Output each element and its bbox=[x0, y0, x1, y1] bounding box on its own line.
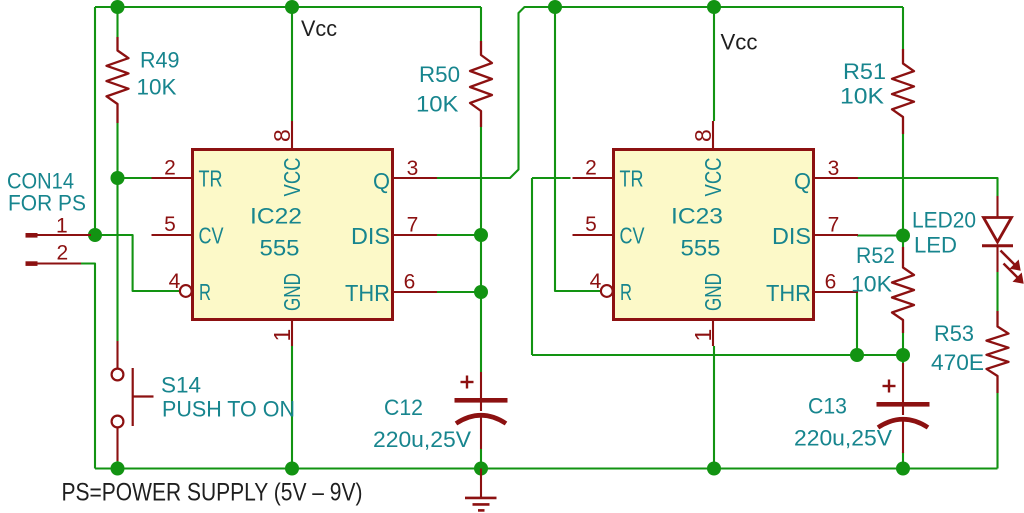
label R50 value 10K bbox=[416, 92, 459, 117]
wire R51 column top bbox=[902, 7, 904, 49]
label LED20 bbox=[912, 208, 976, 233]
wire IC22 THR to junction bbox=[437, 291, 481, 293]
svg-text:10K: 10K bbox=[416, 92, 459, 117]
wire THR net horizontal bbox=[532, 354, 903, 356]
junction rail C13 bbox=[896, 462, 910, 476]
svg-text:LED20: LED20 bbox=[912, 208, 976, 233]
label R52 value 10K bbox=[851, 272, 892, 297]
svg-text:Vcc: Vcc bbox=[721, 30, 758, 55]
svg-text:1: 1 bbox=[56, 215, 68, 238]
pin 6 THR IC22 bbox=[393, 271, 438, 294]
wire R49 column to TR junction and S14 bbox=[116, 123, 118, 341]
pin 7 DIS IC23 bbox=[814, 214, 859, 237]
wire C12 bottom lead bbox=[480, 449, 482, 469]
svg-text:GND: GND bbox=[700, 273, 726, 311]
pin 2 TR IC23 bbox=[573, 157, 614, 180]
svg-text:GND: GND bbox=[279, 273, 305, 311]
svg-text:6: 6 bbox=[404, 271, 416, 294]
pin name VCC IC22 rotated bbox=[279, 158, 305, 197]
pin name GND IC23 rotated bbox=[700, 273, 726, 311]
svg-text:C13: C13 bbox=[808, 394, 847, 419]
pin 4 R IC22 inverted bbox=[169, 270, 192, 297]
wire IC23 DIS to R52 junction bbox=[857, 234, 903, 236]
svg-text:VCC: VCC bbox=[700, 158, 726, 197]
ground bbox=[465, 469, 497, 511]
pin 5 CV IC22 bbox=[152, 213, 193, 236]
wire R53 bottom to ground rail bbox=[996, 393, 998, 469]
wire R52 bottom to THR net bbox=[902, 333, 904, 355]
svg-text:Vcc: Vcc bbox=[301, 16, 337, 41]
svg-text:4: 4 bbox=[169, 270, 181, 293]
svg-text:FOR PS: FOR PS bbox=[8, 191, 86, 216]
pin 8 VCC IC22 bbox=[269, 121, 295, 150]
svg-text:R51: R51 bbox=[843, 59, 886, 84]
svg-text:7: 7 bbox=[407, 214, 419, 237]
net label Vcc right bbox=[721, 30, 758, 55]
label R53 bbox=[934, 321, 974, 346]
svg-text:IC22: IC22 bbox=[250, 204, 302, 229]
wire R51 bottom to DIS junction bbox=[902, 134, 904, 236]
junction top rail IC22 VCC bbox=[285, 0, 299, 14]
wire TR row IC22 bbox=[118, 177, 152, 179]
capacitor C12 bbox=[455, 372, 508, 449]
junction DIS R51 R52 bbox=[896, 229, 910, 243]
svg-text:470E: 470E bbox=[931, 350, 984, 375]
label C12 bbox=[384, 395, 423, 420]
junction rail2 IC23 VCC bbox=[707, 0, 721, 14]
wire IC23 TR down to THR net bbox=[531, 178, 533, 355]
wire CON14 pin1 to IC22 reset bbox=[95, 235, 180, 291]
svg-text:10K: 10K bbox=[851, 272, 892, 297]
svg-text:3: 3 bbox=[828, 157, 840, 180]
svg-text:TR: TR bbox=[620, 166, 644, 192]
svg-text:1: 1 bbox=[269, 329, 295, 342]
svg-text:5: 5 bbox=[164, 213, 176, 236]
svg-text:PUSH TO ON: PUSH TO ON bbox=[162, 397, 295, 422]
svg-text:CV: CV bbox=[199, 223, 225, 249]
svg-text:1: 1 bbox=[690, 329, 716, 342]
svg-text:2: 2 bbox=[57, 242, 69, 265]
wire R52 top stub bbox=[902, 236, 904, 247]
pin name DIS IC23 bbox=[772, 223, 811, 249]
capacitor C13 bbox=[877, 363, 930, 453]
pin name THR IC23 bbox=[766, 280, 811, 306]
connector CON14 pin 2 bbox=[26, 242, 82, 266]
pin name TR IC22 bbox=[199, 166, 223, 192]
resistor R53 bbox=[987, 311, 1009, 393]
junction top rail R49 bbox=[111, 0, 125, 14]
IC IC22 555 timer body bbox=[193, 150, 393, 320]
svg-text:8: 8 bbox=[690, 129, 716, 142]
junction rail2 IC23 reset bbox=[548, 0, 562, 14]
svg-text:LED: LED bbox=[914, 233, 957, 258]
pin name DIS IC22 bbox=[351, 223, 390, 249]
svg-text:2: 2 bbox=[585, 157, 597, 180]
pin 7 DIS IC22 bbox=[393, 214, 438, 237]
junction CON14 pin1 bbox=[88, 228, 102, 242]
svg-text:555: 555 bbox=[260, 236, 300, 261]
svg-text:THR: THR bbox=[345, 280, 390, 306]
svg-text:8: 8 bbox=[269, 129, 295, 142]
wire S14 bottom to ground rail bbox=[116, 461, 118, 469]
wire IC23 GND column bbox=[713, 346, 715, 469]
label R50 bbox=[419, 62, 460, 87]
svg-text:R49: R49 bbox=[140, 48, 180, 73]
label 555 IC22 bbox=[260, 236, 300, 261]
wire bottom ground rail bbox=[95, 467, 998, 469]
svg-text:S14: S14 bbox=[161, 373, 201, 398]
svg-text:R: R bbox=[199, 279, 211, 305]
svg-text:Q: Q bbox=[794, 168, 811, 194]
connector CON14 pin 1 bbox=[26, 215, 92, 238]
svg-text:R50: R50 bbox=[419, 62, 460, 87]
label C13 value 220u,25V bbox=[794, 426, 892, 451]
resistor R49 bbox=[107, 37, 129, 123]
svg-text:6: 6 bbox=[825, 271, 837, 294]
wire R49 column top bbox=[116, 7, 118, 37]
junction DIS IC22 bbox=[474, 228, 488, 242]
wire top-left Vcc rail bbox=[95, 6, 481, 8]
svg-text:TR: TR bbox=[199, 166, 223, 192]
pin name VCC IC23 rotated bbox=[700, 158, 726, 197]
svg-text:10K: 10K bbox=[137, 75, 177, 100]
svg-text:3: 3 bbox=[407, 157, 419, 180]
svg-text:DIS: DIS bbox=[772, 223, 811, 249]
pin name Q IC23 bbox=[794, 168, 811, 194]
label S14 value PUSH TO ON bbox=[162, 397, 295, 422]
label CON14 FOR PS bbox=[8, 191, 86, 216]
pin name R IC23 bbox=[620, 279, 632, 305]
resistor R51 bbox=[892, 49, 914, 134]
label C13 bbox=[808, 394, 847, 419]
pin name THR IC22 bbox=[345, 280, 390, 306]
wire IC22 GND column bbox=[291, 346, 293, 469]
label R51 value 10K bbox=[840, 84, 884, 109]
wire R50 column top bbox=[480, 7, 482, 41]
wire IC23 THR drop bbox=[815, 292, 858, 355]
label IC23 bbox=[671, 204, 723, 229]
label R53 value 470E bbox=[931, 350, 984, 375]
svg-text:DIS: DIS bbox=[351, 223, 390, 249]
svg-text:7: 7 bbox=[828, 214, 840, 237]
pin 1 GND IC22 bbox=[269, 320, 295, 347]
svg-text:VCC: VCC bbox=[279, 158, 305, 197]
svg-text:CV: CV bbox=[620, 223, 646, 249]
pin name GND IC22 rotated bbox=[279, 273, 305, 311]
pin 8 VCC IC23 bbox=[690, 121, 716, 150]
svg-text:PS=POWER SUPPLY (5V – 9V): PS=POWER SUPPLY (5V – 9V) bbox=[62, 479, 363, 507]
junction THR IC22 bbox=[474, 285, 488, 299]
wire LED cathode to R53 bbox=[996, 272, 998, 311]
wire R50 column through DIS/THR to C12 bbox=[480, 127, 482, 372]
junction rail S14 bbox=[111, 462, 125, 476]
wire IC22 DIS to junction bbox=[437, 234, 481, 236]
wire IC23 TR row bbox=[532, 177, 571, 179]
svg-text:2: 2 bbox=[164, 157, 176, 180]
LED LED20 bbox=[982, 196, 1024, 284]
note PS=POWER SUPPLY (5V - 9V) bbox=[62, 479, 363, 507]
IC IC23 555 timer body bbox=[614, 150, 814, 320]
label CON14 bbox=[7, 169, 74, 194]
junction rail IC22 GND bbox=[285, 462, 299, 476]
junction rail C12 bbox=[474, 462, 488, 476]
svg-text:THR: THR bbox=[766, 280, 811, 306]
svg-text:R53: R53 bbox=[934, 321, 974, 346]
resistor R50 bbox=[470, 41, 492, 127]
wire IC23 VCC column bbox=[713, 7, 715, 121]
resistor R52 bbox=[892, 247, 914, 333]
svg-text:220u,25V: 220u,25V bbox=[373, 427, 471, 452]
wire C13 top stub bbox=[902, 355, 904, 363]
pin name Q IC22 bbox=[373, 168, 390, 194]
label LED20 value LED bbox=[914, 233, 957, 258]
label S14 bbox=[161, 373, 201, 398]
switch S14 push to on bbox=[112, 341, 154, 461]
pin 3 Q IC23 bbox=[814, 157, 859, 180]
pin 5 CV IC23 bbox=[573, 213, 614, 236]
junction rail IC23 GND bbox=[707, 462, 721, 476]
junction THR net drop bbox=[850, 348, 864, 362]
wire IC23 Q to LED column bbox=[857, 178, 998, 196]
wire C13 bottom to ground rail bbox=[902, 452, 904, 469]
label R51 bbox=[843, 59, 886, 84]
svg-text:Q: Q bbox=[373, 168, 390, 194]
svg-text:4: 4 bbox=[590, 270, 602, 293]
wire Vcc rail to IC23 reset bbox=[555, 7, 601, 291]
label IC22 bbox=[250, 204, 302, 229]
pin name CV IC23 bbox=[620, 223, 646, 249]
svg-text:IC23: IC23 bbox=[671, 204, 723, 229]
label R52 bbox=[856, 243, 895, 268]
pin name R IC22 bbox=[199, 279, 211, 305]
label 555 IC23 bbox=[681, 236, 721, 261]
pin name CV IC22 bbox=[199, 223, 225, 249]
label C12 value 220u,25V bbox=[373, 427, 471, 452]
wire left vertical from rail to CON14 pin 1 bbox=[94, 7, 96, 235]
pin 3 Q IC22 bbox=[393, 157, 438, 180]
pin 2 TR IC22 bbox=[152, 157, 193, 180]
svg-text:220u,25V: 220u,25V bbox=[794, 426, 892, 451]
svg-text:5: 5 bbox=[585, 213, 597, 236]
wire IC22 Q output up to second rail bbox=[437, 7, 903, 178]
junction THR net R52 C13 bbox=[896, 348, 910, 362]
wire CON14 pin2 down to ground rail bbox=[81, 264, 95, 469]
svg-text:555: 555 bbox=[681, 236, 721, 261]
svg-text:10K: 10K bbox=[840, 84, 884, 109]
pin 4 R IC23 inverted bbox=[590, 270, 613, 297]
label R49 value 10K bbox=[137, 75, 177, 100]
svg-text:C12: C12 bbox=[384, 395, 423, 420]
svg-text:R52: R52 bbox=[856, 243, 895, 268]
pin 1 GND IC23 bbox=[690, 320, 716, 347]
junction TR R49 bbox=[111, 171, 125, 185]
svg-text:R: R bbox=[620, 279, 632, 305]
label R49 bbox=[140, 48, 180, 73]
net label Vcc left bbox=[301, 16, 337, 41]
pin 6 THR IC23 bbox=[814, 271, 859, 294]
pin name TR IC23 bbox=[620, 166, 644, 192]
wire IC22 VCC column bbox=[291, 7, 293, 121]
